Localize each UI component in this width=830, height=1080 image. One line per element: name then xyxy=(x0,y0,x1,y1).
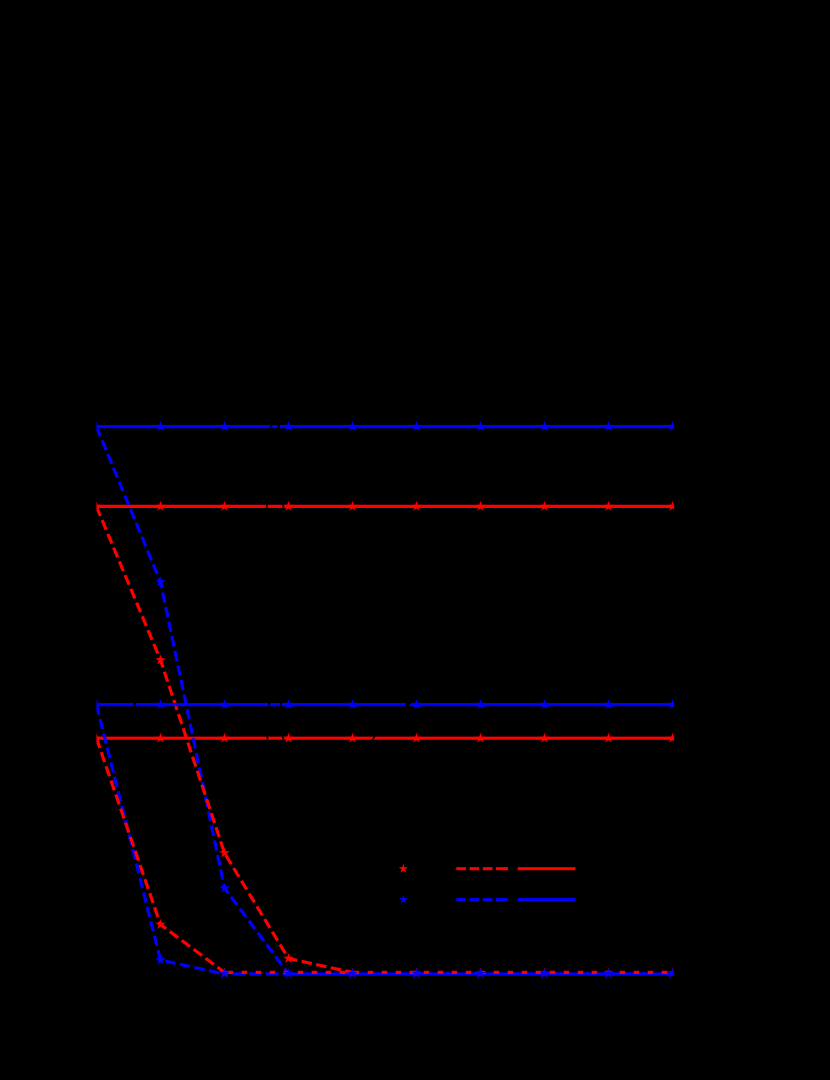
red stars xyxy=(91,501,678,978)
red dashed curve D descending xyxy=(96,738,224,972)
seam notch on blue line 2 xyxy=(405,702,412,706)
red dashed curve B descending xyxy=(96,506,352,972)
red solid line 2 xyxy=(96,737,674,740)
legend xyxy=(399,864,576,904)
seam notch on red line 2 xyxy=(371,736,376,740)
blue dashed curve C descending xyxy=(96,705,224,974)
blue stars xyxy=(91,421,678,978)
blue dashed curve A descending xyxy=(96,427,288,974)
blue solid line 2 xyxy=(96,703,674,706)
red solid line 1 xyxy=(96,505,674,508)
blue solid line 1 xyxy=(96,425,674,428)
blue floor solid xyxy=(290,972,674,975)
blue dashed floor left xyxy=(225,972,291,975)
red dashed floor xyxy=(225,971,675,974)
